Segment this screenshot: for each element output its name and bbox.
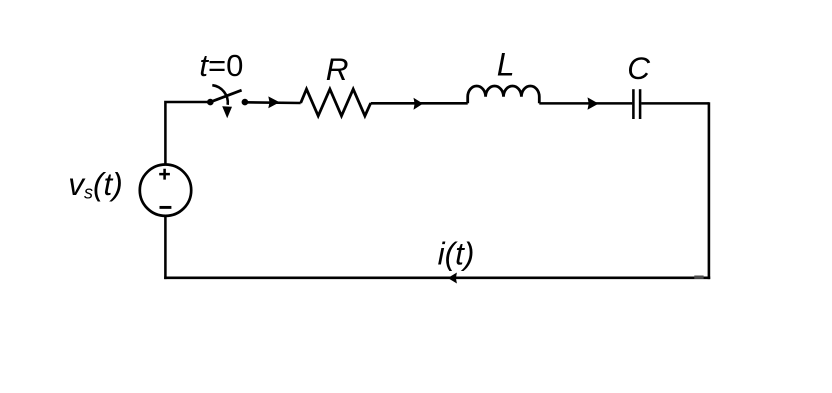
current arrow i(t) on bottom wire xyxy=(448,273,457,284)
wire from resistor to inductor xyxy=(371,102,468,105)
wire from source bottom to bottom-left corner xyxy=(164,216,167,280)
switch blade xyxy=(210,90,241,102)
inductor L xyxy=(468,86,540,103)
switch pivot dot xyxy=(207,99,214,106)
svg-text:R: R xyxy=(326,51,349,87)
capacitor C xyxy=(633,89,640,119)
switch throw dot xyxy=(242,99,249,106)
wire bottom return xyxy=(164,276,710,279)
wire from capacitor to top-right corner xyxy=(641,102,709,105)
svg-text:t=0: t=0 xyxy=(199,48,243,83)
svg-text:vs(t): vs(t) xyxy=(68,166,122,203)
wire right vertical xyxy=(708,102,711,279)
svg-text:i(t): i(t) xyxy=(438,235,475,271)
current direction arrow (after resistor) xyxy=(414,98,424,110)
current direction arrow (after switch) xyxy=(268,96,279,108)
current direction arrow (after inductor) xyxy=(588,97,599,109)
voltage source v_s(t) xyxy=(140,165,191,216)
switch closing arc arrow xyxy=(212,85,232,118)
wire from source top to switch xyxy=(165,102,209,165)
wire from switch to resistor xyxy=(245,101,301,104)
resistor R xyxy=(301,89,371,116)
svg-text:L: L xyxy=(497,46,515,82)
wire overlap mark near bottom-right xyxy=(694,276,703,279)
wire from inductor to capacitor xyxy=(539,102,632,105)
svg-text:C: C xyxy=(627,50,650,86)
